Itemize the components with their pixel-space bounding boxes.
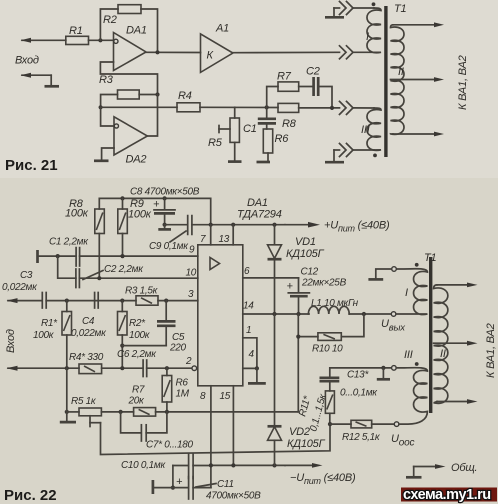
svg-text:22мк×25В: 22мк×25В	[301, 278, 347, 289]
pin 15 lead	[220, 386, 234, 466]
svg-text:С7* 0...180: С7* 0...180	[146, 440, 193, 451]
svg-text:ТДА7294: ТДА7294	[237, 209, 282, 221]
resistor R12	[330, 420, 394, 443]
wire winding I top with connector chevrons	[334, 2, 374, 15]
input terminal arrow (upper), Вход fig.21	[21, 38, 66, 43]
terminal circle winding III top	[392, 366, 397, 371]
svg-text:100к: 100к	[129, 330, 151, 341]
svg-text:+: +	[287, 281, 294, 293]
capacitor C2 (fig.22)	[76, 264, 144, 288]
capacitor C7* parallel loop	[121, 412, 194, 451]
polarity dot winding I	[372, 2, 376, 6]
transformer T1 winding I	[366, 8, 381, 53]
svg-text:7: 7	[200, 234, 206, 245]
node R11/R12	[328, 422, 332, 426]
wire L1 to output terminal	[349, 312, 396, 317]
+supply rail wire with pins 7 13	[209, 223, 285, 227]
output arrow middle tap	[391, 77, 445, 82]
ground bar at winding III top	[377, 368, 390, 379]
resistor R3 (fig.22)	[125, 286, 159, 306]
svg-text:1М: 1М	[176, 389, 190, 400]
wire R5 to R7	[101, 410, 133, 414]
svg-text:Общ.: Общ.	[451, 462, 477, 474]
resistor R10	[298, 314, 364, 355]
wire DA1 non-inverting input loop	[100, 62, 157, 95]
resistor R11*	[297, 391, 334, 433]
+Upit arrow terminal	[285, 220, 390, 234]
svg-text:С2: С2	[306, 66, 320, 78]
wire R6 bottom to row 5	[166, 402, 168, 412]
svg-text:II: II	[440, 348, 446, 360]
svg-text:13: 13	[219, 234, 230, 245]
node DA1 output	[155, 50, 159, 54]
svg-text:R6: R6	[176, 378, 189, 389]
svg-text:VD1: VD1	[295, 236, 316, 248]
wire summing row to R4	[101, 106, 177, 108]
wire row 9 to pin 9	[80, 245, 198, 259]
svg-text:С6 2,2мк: С6 2,2мк	[117, 349, 157, 360]
svg-text:R6: R6	[275, 133, 290, 145]
svg-text:А1: А1	[215, 23, 229, 35]
svg-text:схема.my1.ru: схема.my1.ru	[403, 487, 491, 503]
input terminal arrow (lower) with shield wire and ground bar	[21, 73, 60, 87]
transformer T1 (fig.22) winding III	[396, 349, 427, 424]
wire DA2 non-inverting input to ground	[102, 148, 114, 160]
svg-text:К: К	[207, 50, 214, 62]
svg-text:R4* 330: R4* 330	[69, 352, 104, 363]
pin 6 wire	[243, 266, 299, 278]
ground at winding I top	[325, 8, 344, 17]
svg-text:С5: С5	[172, 332, 185, 343]
watermark cxema.my1.ru	[401, 487, 497, 503]
pin 1 and pin 4 wires to ground	[243, 325, 266, 383]
svg-text:Вход: Вход	[5, 329, 17, 353]
wire winding III bottom with connector chevrons	[334, 144, 374, 157]
resistor R2*	[118, 301, 151, 341]
capacitor C5	[157, 301, 187, 354]
svg-text:R3: R3	[99, 74, 114, 86]
resistor R6 (fig.21)	[263, 129, 289, 153]
wire row4 chain down to row 5	[66, 368, 68, 412]
trimmer tap R5	[90, 416, 101, 427]
node C1 top	[265, 105, 269, 109]
svg-text:VD2: VD2	[289, 426, 310, 438]
wire R7 to inverting row right	[156, 410, 299, 414]
capacitor C12 electrolytic bootstrap	[287, 267, 347, 315]
wire row 3	[46, 299, 136, 303]
wire DA2 inverting input	[101, 107, 115, 126]
wire R3 left down to summing row	[101, 95, 118, 108]
svg-text:L1 10 мкГн: L1 10 мкГн	[311, 298, 359, 309]
resistor R7 (fig.22)	[128, 385, 156, 417]
resistor R3	[99, 74, 139, 99]
op-amp DA1	[114, 25, 147, 71]
output arrow bottom	[393, 132, 444, 137]
capacitor C1 (fig.21)	[243, 107, 276, 135]
svg-text:К ВА1, ВА2: К ВА1, ВА2	[457, 55, 469, 110]
resistor R5 (fig.21) with trimmer tap	[208, 107, 239, 149]
svg-text:С3: С3	[20, 270, 33, 281]
svg-text:0,022мк: 0,022мк	[2, 282, 38, 293]
wire R4* to C6	[102, 366, 143, 370]
svg-text:С12: С12	[301, 267, 319, 278]
polarity dot winding III	[373, 154, 377, 158]
svg-text:R2*: R2*	[129, 318, 146, 329]
svg-text:100к: 100к	[33, 330, 55, 341]
ground R5 (fig.21)	[228, 142, 242, 161]
svg-text:20к: 20к	[128, 396, 146, 407]
amplifier A1	[201, 23, 233, 73]
resistor R7 (fig.21)	[267, 71, 299, 108]
resistor R4	[177, 90, 200, 112]
svg-text:III: III	[361, 124, 370, 136]
svg-text:С11: С11	[217, 479, 234, 490]
svg-text:0,022мк: 0,022мк	[71, 328, 107, 339]
resistor R4*	[69, 352, 104, 374]
wire DA1 output to A1	[146, 51, 201, 53]
svg-text:R8: R8	[282, 118, 297, 130]
svg-text:+: +	[153, 199, 160, 211]
capacitor C4	[71, 293, 107, 340]
capacitor C1 (fig.22)	[49, 237, 89, 267]
ground DA2 input	[94, 159, 109, 162]
terminal circle winding III bottom / Uoos	[391, 422, 414, 449]
transformer T1 winding III	[361, 108, 381, 150]
wire DA2 output up to R3	[147, 95, 157, 137]
svg-text:С2 2,2мк: С2 2,2мк	[104, 264, 144, 275]
svg-text:К ВА1, ВА2: К ВА1, ВА2	[485, 323, 497, 378]
resistor R1	[66, 25, 89, 45]
svg-text:I: I	[405, 287, 408, 299]
capacitor C11 electrolytic	[153, 476, 261, 502]
input row 9: terminal bar and wire	[38, 250, 76, 263]
svg-text:R7: R7	[277, 71, 292, 83]
wire C6 to pin 2 circle	[147, 356, 197, 371]
inductor L1	[308, 298, 358, 314]
resistor R9	[118, 198, 152, 234]
svg-text:С9 0,1мк: С9 0,1мк	[149, 241, 189, 252]
svg-text:С4: С4	[82, 316, 95, 327]
svg-text:I: I	[366, 31, 369, 43]
svg-text:10: 10	[186, 268, 197, 279]
svg-text:С8 4700мк×50В: С8 4700мк×50В	[130, 187, 200, 198]
svg-text:R5 1к: R5 1к	[71, 396, 97, 407]
svg-text:DA1: DA1	[247, 197, 268, 209]
connector chevrons winding III top	[340, 101, 375, 114]
svg-text:КД105Г: КД105Г	[287, 438, 326, 450]
resistor R1*	[33, 301, 72, 341]
svg-text:220: 220	[169, 343, 187, 354]
svg-text:III: III	[404, 349, 413, 361]
resistor R2 feedback	[100, 5, 157, 53]
svg-text:Рис. 22: Рис. 22	[4, 487, 57, 504]
svg-text:R2: R2	[103, 14, 117, 26]
svg-text:R4: R4	[178, 90, 192, 102]
wire R3 right to DA2 output node	[139, 94, 157, 96]
node C1 left branch	[56, 254, 60, 258]
transformer T1 (fig.22) winding I	[396, 269, 428, 315]
svg-text:2: 2	[185, 356, 192, 367]
node C8 top	[163, 196, 167, 200]
wire A1 output to winding I	[233, 51, 340, 53]
minus supply bus	[209, 463, 285, 467]
node R9 top	[120, 196, 124, 200]
polarity dot winding III (fig.22)	[415, 362, 419, 366]
node R8/C2 right	[330, 106, 334, 110]
output arrow top (to BA1,BA2)	[393, 22, 444, 27]
svg-text:С1 2,2мк: С1 2,2мк	[49, 237, 89, 248]
svg-text:С13*: С13*	[347, 370, 369, 381]
transformer T1 (fig.22) winding II	[434, 285, 448, 403]
output arrow bottom (fig.22)	[437, 399, 478, 404]
svg-text:+Uпит (≤40В): +Uпит (≤40В)	[324, 220, 390, 234]
-Upit arrow terminal	[285, 463, 356, 486]
op-amp DA2	[114, 117, 147, 166]
node input ground junction	[65, 410, 69, 414]
pin 14 output row	[243, 301, 309, 317]
wire R4 to C1/R7 node	[200, 106, 278, 108]
wire R1 to DA1 inverting input	[89, 39, 115, 41]
svg-text:8: 8	[200, 391, 206, 402]
svg-text:DA1: DA1	[126, 25, 147, 37]
svg-text:100к: 100к	[128, 209, 152, 221]
+supply top bus wire	[99, 198, 210, 224]
capacitor C2 (fig.21)	[299, 66, 332, 108]
output arrow middle tap (fig.22)	[434, 341, 478, 346]
capacitor C9	[149, 216, 211, 252]
diode VD1	[268, 225, 325, 314]
svg-text:R1: R1	[69, 25, 83, 37]
resistor R8 (fig.22)	[65, 198, 104, 234]
svg-text:4: 4	[249, 349, 255, 360]
svg-text:15: 15	[220, 391, 231, 402]
terminal circle winding I top	[392, 267, 397, 272]
input arrow row 3 (Вход upper)	[7, 298, 43, 303]
common terminal bar at C11	[152, 480, 155, 494]
ground at winding I top (fig.22)	[368, 269, 391, 279]
diode VD2	[268, 314, 326, 465]
wire R9 bottom to row 9	[122, 234, 124, 257]
svg-text:Вход: Вход	[15, 55, 39, 67]
svg-text:II: II	[398, 66, 404, 78]
ground bar below C8	[158, 225, 171, 230]
common terminal Obsh arrow	[406, 462, 477, 477]
wire C13 top row to winding III	[330, 366, 392, 378]
pin 13 lead	[219, 225, 234, 245]
wire C10 left down to C11 row	[171, 466, 175, 490]
ground R6 (fig.21)	[257, 153, 271, 162]
wire R3 to pin 3	[158, 289, 198, 303]
svg-text:Т1: Т1	[394, 3, 407, 15]
svg-text:0...0,1мк: 0...0,1мк	[340, 388, 378, 399]
svg-text:R1*: R1*	[41, 318, 58, 329]
node C8 bottom / C9 left	[163, 223, 167, 227]
svg-text:4700мк×50В: 4700мк×50В	[206, 491, 261, 502]
IC DA1 TDA7294 box	[198, 197, 282, 386]
label C3 value	[2, 270, 38, 293]
svg-text:Рис. 21: Рис. 21	[5, 157, 58, 174]
svg-text:R12 5,1к: R12 5,1к	[342, 432, 381, 443]
node R3 right	[155, 92, 159, 96]
svg-text:R7: R7	[132, 385, 145, 396]
node summing junction	[99, 105, 103, 109]
svg-text:С1: С1	[243, 123, 257, 135]
svg-text:6: 6	[244, 266, 250, 277]
wire row 10 to pin 10	[79, 268, 197, 281]
wire R1* bottom to row 4	[66, 335, 68, 368]
svg-text:100к: 100к	[65, 208, 89, 220]
svg-text:КД105Г: КД105Г	[286, 248, 325, 260]
pin 7 lead	[200, 225, 211, 245]
input arrow row 4 (Вход lower)	[7, 366, 80, 371]
svg-text:R3 1,5к: R3 1,5к	[125, 286, 159, 297]
svg-text:+: +	[176, 476, 183, 488]
svg-text:1: 1	[246, 325, 251, 336]
capacitor C3	[42, 293, 46, 309]
resistor R6 (fig.22)	[162, 368, 190, 402]
svg-text:R10 10: R10 10	[312, 344, 343, 355]
capacitor C6	[117, 349, 157, 377]
svg-text:DA2: DA2	[126, 154, 147, 166]
output arrow top (fig.22)	[437, 283, 478, 288]
svg-text:−Uпит (≤40В): −Uпит (≤40В)	[290, 472, 356, 486]
transformer T1 (fig.22) core	[429, 257, 432, 413]
node at R1/R2/DA1 junction	[98, 38, 102, 42]
svg-text:14: 14	[243, 301, 254, 312]
transformer T1 core	[384, 6, 387, 157]
vertical feedback link pin14 to row5	[296, 314, 300, 412]
capacitor C10	[121, 454, 211, 479]
svg-text:9: 9	[189, 245, 195, 256]
connector chevrons winding I bottom	[340, 46, 375, 59]
wire R8 bottom to row 10	[98, 234, 100, 279]
svg-text:R5: R5	[208, 137, 223, 149]
capacitor C8 electrolytic	[130, 187, 200, 225]
ground at R5 left	[60, 412, 76, 422]
transformer T1 winding II	[391, 25, 405, 135]
feedback wire R5 tap to R11/R12 node	[101, 423, 331, 455]
wire R2* bottom node	[120, 335, 166, 368]
pin 8 lead	[200, 386, 211, 488]
polarity dot winding I (fig.22)	[415, 263, 419, 267]
ground winding III bottom	[325, 150, 344, 162]
svg-text:3: 3	[188, 289, 194, 300]
capacitor C13*	[320, 370, 379, 399]
wire branch down to row 10	[58, 256, 76, 278]
resistor R8 (fig.21)	[278, 103, 340, 130]
resistor R5 (fig.22) trimmer	[67, 396, 102, 416]
svg-text:С10 0,1мк: С10 0,1мк	[121, 460, 166, 471]
